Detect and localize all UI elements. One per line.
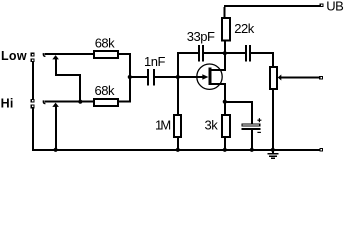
svg-text:Low: Low: [1, 49, 27, 63]
resistor R 3k: [222, 115, 230, 137]
connector pin squares (Low): [31, 53, 34, 61]
node junction source: [223, 100, 227, 104]
potentiometer P1: [270, 67, 277, 89]
svg-text:1nF: 1nF: [144, 54, 165, 69]
svg-text:68k: 68k: [95, 36, 115, 51]
wire wiper to output terminal: [281, 77, 320, 79]
node junction rail C3: [250, 148, 254, 152]
resistor R 68k (top): [94, 51, 118, 58]
svg-text:33pF: 33pF: [187, 29, 215, 44]
svg-text:3k: 3k: [205, 117, 219, 132]
svg-text:Hi: Hi: [1, 97, 14, 111]
capacitor C 33pF: [198, 45, 204, 62]
svg-text:UB: UB: [326, 0, 343, 14]
node junction gate/33pF/1M: [176, 75, 180, 79]
node junction rail 3k: [223, 148, 227, 152]
wire pot bottom to rail: [272, 89, 274, 150]
resistor R 1M: [174, 115, 181, 137]
wire C1 to gate: [155, 76, 204, 78]
pot wiper arrow: [278, 75, 282, 81]
switch arrow (Low jack NC contact): [52, 55, 59, 59]
wire C3 bottom to rail: [251, 130, 253, 150]
wire 22k bottom to drain node: [224, 42, 226, 54]
wire 3k bottom to rail: [224, 137, 226, 150]
wire 33pF branch up from gate node: [177, 52, 179, 77]
node junction on rail: [54, 148, 58, 152]
terminal UB: [320, 4, 323, 7]
capacitor C3 electrolytic top plate: [242, 124, 260, 126]
wire Low bottom pin down to Hi top pin: [32, 61, 34, 100]
JFET drain lead: [211, 69, 226, 71]
wire 3k top from source node: [224, 101, 226, 115]
node junction on Hi line: [78, 100, 82, 104]
switch arrow (Hi jack NC contact): [52, 103, 59, 107]
jack hook contact (Low): [43, 53, 45, 56]
wire Low input line to R1: [45, 53, 94, 55]
terminal output: [320, 76, 323, 79]
JFET channel bar: [208, 68, 211, 85]
wire 22k top to UB rail: [223, 7, 225, 18]
JFET source lead: [211, 83, 226, 85]
wire 1M bottom to rail: [177, 137, 179, 150]
minus sign: [257, 131, 261, 133]
wire C2 to potentiometer top: [251, 52, 274, 54]
capacitor C 1nF: [147, 69, 155, 86]
terminal rail right: [320, 148, 323, 151]
wire source node to C3: [224, 101, 253, 103]
wire 1M top from gate node: [177, 77, 179, 115]
resistor R 22k: [222, 18, 230, 41]
wire 33pF to drain node: [204, 52, 245, 54]
wire R1 right to junction column: [118, 53, 131, 55]
plus sign: [257, 118, 261, 122]
node junction rail pot/ground: [271, 148, 275, 152]
capacitor C2 (output coupling): [245, 45, 251, 62]
svg-text:68k: 68k: [95, 83, 115, 98]
JFET gate arrow: [202, 74, 208, 80]
wire step from Low switch to Hi line: [55, 74, 81, 76]
node junction rail 1M: [176, 148, 180, 152]
svg-text:22k: 22k: [234, 21, 254, 36]
capacitor C3 bottom plate: [242, 128, 261, 130]
node junction drain: [223, 51, 227, 55]
jack hook contact (Hi): [43, 100, 45, 103]
wire junction to C1: [130, 76, 148, 78]
node junction gate line / R1R2: [128, 75, 132, 79]
resistor R 68k (bottom): [94, 99, 118, 106]
wire Hi input line to R2: [45, 101, 94, 103]
transistor Q1 JFET circle: [197, 64, 222, 89]
ground symbol: [272, 150, 274, 154]
svg-text:M: M: [160, 118, 170, 133]
wire Hi bottom pin down to ground rail: [32, 108, 34, 151]
wire R2 right to junction column: [118, 101, 131, 103]
connector pin squares (Hi): [31, 100, 34, 108]
ground rail: [32, 149, 320, 151]
